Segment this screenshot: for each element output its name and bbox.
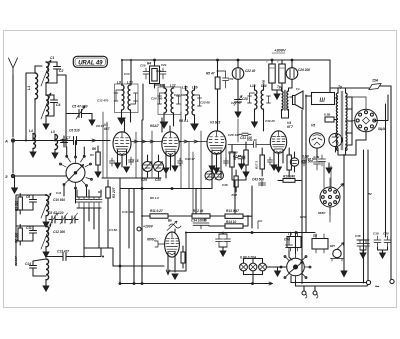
resistor R14 10 — [209, 216, 248, 228]
coil L5 — [51, 130, 58, 153]
wire long verticals from speaker area — [302, 95, 306, 284]
resistor R16 240 — [278, 175, 301, 183]
ground below L6 — [43, 216, 49, 227]
svg-text:C12 470: C12 470 — [97, 99, 109, 103]
wire V1-V2 verticals — [136, 131, 152, 178]
wire cluster down — [142, 84, 144, 120]
wire jack bus — [304, 285, 315, 287]
gram jack 2 — [313, 286, 318, 298]
ground C39 C40 — [378, 247, 388, 258]
tube V2 6SA7 — [150, 124, 179, 170]
svg-text:C20: C20 — [140, 64, 146, 68]
gang trimmer C30 — [154, 155, 164, 182]
capacitor C22 40 (electrolytic circle) — [232, 60, 255, 97]
wire V2-V3 verticals — [181, 112, 201, 214]
wire anode — [168, 233, 186, 272]
tube V1 6K7 — [104, 123, 131, 167]
wire drops to AVC row — [196, 180, 252, 221]
fuse 15A — [330, 79, 391, 96]
terminal Z — [5, 174, 15, 179]
wire top feed — [122, 60, 131, 85]
svg-text:6SA7: 6SA7 — [150, 124, 160, 128]
svg-text:R11 0.27: R11 0.27 — [150, 209, 163, 213]
svg-text:+100V: +100V — [143, 225, 154, 229]
svg-text:R16 240: R16 240 — [283, 175, 295, 179]
wire mid vertical 4 — [128, 189, 130, 249]
wire v1 plate drop — [141, 120, 143, 284]
capacitor C47 (under V2) — [178, 158, 183, 166]
wire V3-V4 verticals — [226, 119, 238, 166]
ground pins V4 — [271, 165, 281, 172]
wire bus to padder — [77, 190, 101, 197]
svg-text:R18: R18 — [232, 193, 238, 197]
switch block Sh — [306, 93, 338, 105]
trimmers below V3 — [205, 171, 224, 180]
capacitor C26 200 (electrolytic circle) — [286, 60, 310, 88]
svg-text:C8 47-120: C8 47-120 — [48, 211, 64, 215]
svg-text:R3 20T: R3 20T — [112, 186, 116, 198]
ground below L3 — [43, 116, 49, 129]
resistor R13 0.47 — [225, 209, 252, 228]
capacitor C2 — [46, 62, 63, 83]
wire antenna line — [12, 142, 14, 173]
gang line segment 3 — [180, 140, 207, 143]
svg-text:R9 1.0: R9 1.0 — [150, 196, 159, 200]
svg-text:П1: П1 — [90, 153, 94, 157]
IF transformer 2b (L15 L16) — [182, 86, 210, 131]
svg-text:R4: R4 — [147, 62, 151, 66]
svg-text:C40 20: C40 20 — [265, 119, 275, 123]
svg-text:6.3В: 6.3В — [324, 113, 331, 117]
wire lamps to switch — [266, 266, 286, 268]
svg-text:R8 0.1: R8 0.1 — [179, 119, 189, 123]
coil L1 — [26, 66, 42, 141]
svg-text:C38 500: C38 500 — [306, 157, 318, 161]
svg-text:C11: C11 — [26, 226, 32, 230]
wire mid vertical 3 — [133, 189, 135, 284]
svg-text:З: З — [5, 174, 8, 179]
svg-text:L5: L5 — [51, 130, 55, 134]
IF transformer 3 (L13 L14) — [242, 84, 271, 127]
svg-text:C26 200: C26 200 — [298, 68, 310, 72]
mains terminal 2 — [390, 279, 394, 283]
wire bottom bus — [119, 265, 273, 285]
svg-text:C30: C30 — [155, 178, 161, 182]
wires group2 — [16, 226, 46, 241]
label +300V — [272, 48, 286, 54]
ground below L8 — [43, 280, 49, 291]
coil L8 — [33, 259, 49, 280]
resistor R9 — [255, 148, 265, 176]
svg-text:R2 36Т: R2 36Т — [14, 255, 18, 266]
capacitor C34 10000 — [191, 219, 209, 229]
band switch S1 — [60, 155, 93, 189]
switch Vk on pot — [167, 219, 181, 233]
wire switch to AF bus — [295, 233, 297, 254]
resistor R6 — [92, 146, 101, 177]
svg-text:C25 68: C25 68 — [200, 101, 210, 105]
wire B+ bus — [122, 59, 330, 61]
capacitor C11 — [26, 226, 37, 238]
dial lamp L17 — [259, 259, 267, 275]
ground of trimmer — [89, 114, 95, 126]
capacitor C14 — [25, 261, 37, 273]
tone capacitors C36 C37 — [216, 233, 231, 257]
power transformer Tr1 — [336, 85, 388, 155]
ground at input — [12, 177, 18, 193]
resistor R5 47 — [206, 60, 220, 131]
coil L2 (variable) — [41, 56, 54, 86]
wires from switch to coils — [57, 72, 84, 157]
svg-text:Гр: Гр — [296, 87, 300, 91]
svg-text:L4: L4 — [29, 129, 33, 133]
capacitor C48 (under V3) — [224, 158, 229, 166]
decoupling network R4 C20 C21 — [140, 60, 167, 88]
capacitor C45 (under V1) — [110, 158, 115, 166]
svg-text:C24 100: C24 100 — [151, 97, 163, 101]
svg-text:C21: C21 — [156, 69, 162, 73]
coil L6 (variable) — [41, 193, 65, 218]
svg-text:L15: L15 — [182, 86, 188, 90]
svg-text:C43 500: C43 500 — [252, 178, 264, 182]
tube V3 6K7 — [207, 131, 226, 168]
resistor R18 — [232, 170, 239, 197]
svg-text:C10 910: C10 910 — [53, 198, 65, 202]
magic eye socket — [320, 178, 344, 215]
connector block X1 — [287, 232, 301, 251]
svg-text:C28: C28 — [242, 97, 248, 101]
ground below L4 — [30, 152, 36, 157]
resistor R8 — [243, 142, 249, 177]
cathode resistor R15 — [181, 246, 185, 268]
misc small labels — [14, 69, 372, 266]
svg-text:C46: C46 — [355, 234, 361, 238]
capacitor C46 (under V1 right) — [129, 157, 134, 165]
svg-text:R20: R20 — [300, 215, 306, 219]
heater resistor block — [324, 113, 338, 123]
gram jack 1 — [302, 286, 307, 298]
svg-text:V3 6К3: V3 6К3 — [210, 121, 221, 125]
svg-text:+: + — [277, 60, 279, 64]
wire eye drop — [314, 156, 321, 170]
wire horizontal y256 — [80, 248, 164, 266]
svg-text:C31 100: C31 100 — [240, 136, 252, 140]
IF transformer 1 (L9 L10) — [97, 81, 138, 125]
capacitor C40 — [383, 232, 391, 248]
wire IFT1 drops — [103, 112, 107, 178]
mains terminal 1 — [366, 280, 370, 284]
resistor R12 46 — [192, 209, 225, 218]
svg-text:R17 2: R17 2 — [255, 161, 259, 169]
svg-text:C34 10000: C34 10000 — [191, 219, 207, 223]
wire rect down — [356, 132, 366, 150]
capacitor C49 (under V4) — [268, 157, 273, 165]
electrolytic capacitors C24 C25 — [262, 60, 286, 100]
IF transformer 2 (L11 L12) — [151, 84, 181, 129]
dial lamp L16 — [249, 259, 257, 284]
loudspeaker — [293, 91, 304, 109]
rectifier socket V8 — [352, 97, 387, 132]
svg-text:C39: C39 — [373, 232, 379, 236]
svg-text:L12: L12 — [170, 84, 176, 88]
wire OT down — [282, 113, 289, 118]
bottom rotary switch S2 — [280, 254, 311, 281]
trimmer C23 — [234, 96, 242, 109]
svg-text:C1: C1 — [50, 56, 54, 60]
svg-text:C9 40: C9 40 — [96, 124, 104, 128]
wire rail y188.5 — [120, 188, 212, 190]
capacitor C6 510 (series in antenna line) — [13, 129, 110, 145]
svg-text:C36: C36 — [222, 183, 228, 187]
tube V4 6G7 — [270, 121, 294, 167]
svg-text:C7 15: C7 15 — [130, 159, 139, 163]
trimmer C5 47-220 — [66, 105, 92, 120]
svg-text:R4: R4 — [98, 190, 102, 194]
svg-text:R7 68: R7 68 — [233, 154, 241, 158]
svg-text:C51: C51 — [228, 77, 234, 81]
wire tube V2 V3 pin drops — [166, 164, 221, 189]
ground left of switch — [275, 267, 282, 276]
svg-text:C6 510: C6 510 — [69, 129, 80, 133]
capacitor C9 — [26, 195, 37, 207]
svg-text:6Е5С: 6Е5С — [318, 211, 326, 215]
svg-text:C2: C2 — [59, 69, 63, 73]
svg-text:C4 80: C4 80 — [109, 228, 117, 232]
svg-text:~: ~ — [375, 282, 380, 291]
svg-text:V5: V5 — [311, 124, 315, 128]
wire mid vertical — [107, 203, 109, 248]
wire eye leads up — [324, 162, 331, 222]
wire af bus — [186, 232, 315, 234]
svg-text:C27 20: C27 20 — [231, 101, 241, 105]
svg-text:R5 47: R5 47 — [206, 72, 215, 76]
capacitor C7 — [61, 136, 71, 147]
svg-text:C4: C4 — [56, 103, 60, 107]
svg-text:C30 47: C30 47 — [185, 157, 195, 161]
wire Z line — [13, 175, 66, 177]
wire padder verticals — [84, 208, 99, 257]
capacitor C28 130 (AVC feed) — [228, 133, 251, 137]
wire transformer bottom drops — [364, 150, 369, 283]
capacitor C4 — [46, 95, 60, 116]
trimmer C32 — [290, 152, 298, 172]
ground below L5 — [52, 153, 58, 158]
svg-text:URAL 49: URAL 49 — [78, 61, 103, 67]
padder capacitor bank C15-C19 — [76, 197, 102, 208]
resistor R1 510 — [15, 194, 23, 215]
output transformer Tr2 — [277, 85, 289, 113]
svg-text:L1: L1 — [27, 86, 31, 90]
svg-text:Гр: Гр — [288, 232, 292, 236]
ground pins V2 — [163, 166, 178, 173]
svg-text:C9: C9 — [26, 195, 30, 199]
capacitor C44 — [284, 237, 293, 251]
resistor R2 360 — [15, 225, 23, 246]
wires group1 — [16, 195, 46, 210]
ground below L7 — [43, 247, 49, 257]
gang trimmer C29 — [141, 155, 153, 182]
tube V5 magic eye — [309, 124, 324, 157]
svg-text:Л2: Л2 — [367, 192, 372, 196]
svg-text:А: А — [4, 139, 8, 144]
wire mid vertical 2 — [119, 178, 121, 284]
resistor R3 20T — [106, 180, 116, 203]
svg-text:C21: C21 — [161, 63, 167, 67]
capacitor C43 500 — [252, 178, 266, 187]
motor W1 — [331, 243, 345, 262]
svg-text:П2: П2 — [313, 234, 317, 238]
gang line segment 2 — [132, 140, 162, 143]
capacitors C41 C42 — [357, 240, 370, 258]
power cord — [364, 283, 368, 287]
resistor R10 — [287, 148, 291, 177]
svg-text:R14 10: R14 10 — [226, 220, 237, 224]
svg-text:C40: C40 — [383, 232, 389, 236]
wire center tap ground — [343, 155, 345, 271]
svg-text:C14: C14 — [124, 72, 130, 76]
wire rail y178 — [102, 177, 161, 179]
dial lamp L15 — [240, 259, 248, 275]
svg-text:C12 300: C12 300 — [53, 230, 65, 234]
svg-text:C11: C11 — [56, 191, 62, 195]
power cord wires — [291, 276, 367, 286]
wire speaker leads — [289, 88, 293, 97]
terminal A — [4, 139, 15, 144]
pins arrows V7 — [166, 266, 178, 279]
antenna W1 — [9, 58, 18, 137]
svg-text:+300V: +300V — [274, 48, 286, 53]
svg-text:15А: 15А — [372, 79, 379, 83]
svg-text:+: + — [266, 60, 268, 64]
svg-text:Вк: Вк — [168, 219, 172, 223]
ground pins V1 — [115, 163, 130, 172]
coil L4 — [29, 129, 36, 152]
capacitor C50 — [218, 71, 234, 88]
svg-text:C16 180: C16 180 — [122, 210, 134, 214]
grid cap C35 — [155, 241, 165, 247]
capacitor C39 — [373, 232, 381, 248]
svg-text:Ш: Ш — [320, 98, 326, 104]
svg-text:C14: C14 — [25, 262, 31, 266]
capacitor C31 (grid coupling) — [228, 138, 270, 148]
capacitor C38 500 — [302, 155, 326, 166]
lamp bus wires — [244, 259, 263, 275]
svg-text:L10: L10 — [127, 81, 133, 85]
ground pins V3 — [209, 166, 219, 173]
gang line segment 1 — [62, 139, 96, 142]
wire left rail — [15, 197, 17, 265]
wire af coupling — [258, 221, 262, 229]
wires from switch down — [64, 185, 87, 203]
capacitor C29b to ground — [228, 151, 245, 170]
svg-text:R12 46: R12 46 — [193, 209, 204, 213]
svg-text:R6: R6 — [92, 147, 96, 151]
svg-text:L9: L9 — [117, 81, 121, 85]
ground below C23 — [235, 108, 241, 117]
tube V6 small — [329, 133, 342, 152]
resistor R7 — [230, 145, 237, 174]
nameplate URAL 49 — [73, 56, 107, 67]
coil L7 (variable) — [41, 224, 65, 249]
svg-text:C7: C7 — [66, 136, 70, 140]
wire IF drops — [162, 118, 170, 132]
resistor R11 0.27 — [142, 209, 192, 218]
ground transformer — [326, 163, 332, 173]
wire v3 column — [171, 219, 173, 258]
svg-text:C24 100: C24 100 — [174, 93, 186, 97]
wire mains verticals — [386, 95, 392, 280]
wire detector row — [232, 172, 246, 180]
capacitor C13 477 (series) — [46, 250, 80, 261]
connector block X2 — [312, 234, 328, 253]
coil L3 (variable) — [41, 83, 51, 119]
svg-text:R13 0.47: R13 0.47 — [226, 209, 239, 213]
svg-text:C22 40: C22 40 — [245, 69, 256, 73]
trimmer row C8 47-120 — [48, 211, 78, 224]
tube V7 6P6S — [147, 232, 179, 272]
